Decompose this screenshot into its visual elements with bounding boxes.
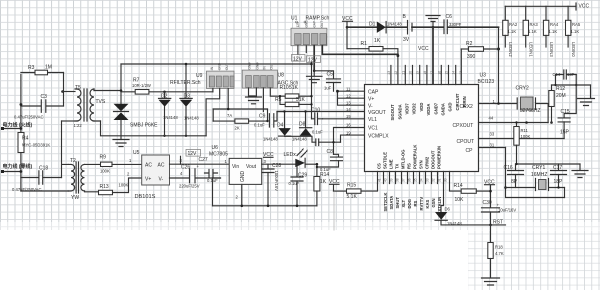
svg-text:VGOUT: VGOUT — [368, 110, 386, 116]
svg-text:32: 32 — [432, 178, 436, 182]
svg-text:D6: D6 — [445, 207, 451, 212]
svg-text:38: 38 — [396, 178, 400, 182]
capacitor C5 1uF — [314, 71, 340, 91]
svg-text:GND7: GND7 — [433, 102, 438, 114]
svg-text:14: 14 — [452, 71, 456, 75]
node junction dots left rail — [20, 103, 23, 106]
svg-text:22: 22 — [394, 71, 398, 75]
wire U5 out 12V — [170, 163, 230, 165]
wire diode bottoms bus — [285, 136, 316, 142]
svg-text:RA3: RA3 — [530, 22, 539, 27]
resistor R14 1K vertical — [314, 163, 329, 206]
svg-text:U1: U1 — [291, 16, 298, 22]
sheet symbol U9 RFILTER — [170, 62, 234, 88]
svg-text:100uF/16V: 100uF/16V — [274, 171, 279, 192]
svg-text:GND: GND — [240, 171, 246, 183]
IC top pin stubs — [391, 66, 456, 85]
svg-text:21: 21 — [401, 71, 405, 75]
svg-text:RS: RS — [413, 200, 418, 206]
svg-text:2K: 2K — [235, 125, 240, 130]
node VCC top left — [342, 16, 353, 49]
battery B 3V — [403, 14, 434, 43]
svg-text:1.1K: 1.1K — [571, 29, 580, 34]
svg-text:1N4148: 1N4148 — [292, 137, 307, 142]
svg-text:37: 37 — [402, 178, 406, 182]
svg-text:OUT: OUT — [320, 21, 324, 28]
svg-text:Vout: Vout — [246, 164, 257, 170]
svg-text:RAMP.Sch: RAMP.Sch — [306, 16, 330, 22]
node VCC right — [484, 180, 495, 208]
svg-text:MC7805: MC7805 — [209, 151, 228, 157]
svg-text:D1: D1 — [369, 22, 376, 28]
svg-text:SDATA: SDATA — [389, 196, 394, 210]
svg-text:0.1uF: 0.1uF — [254, 123, 265, 128]
svg-text:POWERALK: POWERALK — [413, 145, 418, 169]
svg-text:U3: U3 — [480, 73, 487, 79]
IC top inside labels — [390, 93, 467, 120]
wire U1 pin3 to ground — [313, 46, 315, 71]
svg-text:GXD: GXD — [448, 102, 453, 111]
svg-text:MTLD-OG: MTLD-OG — [401, 149, 406, 169]
svg-text:31: 31 — [490, 143, 495, 148]
node VCC at U6 out — [263, 152, 274, 158]
svg-text:R5: R5 — [275, 97, 282, 103]
svg-text:C28: C28 — [272, 163, 281, 169]
svg-text:CPXOUT: CPXOUT — [453, 123, 474, 129]
diode D3 — [180, 63, 199, 136]
svg-text:31: 31 — [438, 178, 442, 182]
grid background — [0, 0, 600, 230]
svg-text:C10: C10 — [311, 108, 320, 114]
svg-text:RVTTV: RVTTV — [419, 197, 424, 211]
svg-text:XLT: XLT — [401, 199, 406, 207]
svg-text:GSN: GSN — [431, 198, 436, 207]
diode D8 — [292, 110, 312, 141]
svg-text:CAP: CAP — [368, 90, 379, 96]
ground right of R12 — [578, 85, 595, 106]
svg-text:YW: YW — [71, 195, 79, 201]
wire 12V vertical — [311, 62, 313, 118]
svg-text:18P: 18P — [554, 179, 564, 185]
svg-text:RA2: RA2 — [509, 22, 518, 27]
svg-text:12: 12 — [346, 94, 351, 99]
svg-text:U9: U9 — [196, 73, 203, 79]
TVS bidirectional diode — [96, 99, 159, 140]
IC right pin wires — [479, 104, 565, 148]
svg-text:20M: 20M — [556, 93, 566, 99]
svg-text:T2: T2 — [70, 158, 76, 164]
svg-text:V-: V- — [159, 177, 164, 183]
svg-text:19: 19 — [346, 130, 351, 135]
svg-text:U6: U6 — [212, 145, 219, 151]
svg-text:390: 390 — [467, 54, 476, 60]
svg-text:1N4148: 1N4148 — [263, 136, 278, 141]
svg-text:RA5: RA5 — [572, 22, 581, 27]
wire mid rail right of C9 — [277, 111, 365, 113]
svg-text:33: 33 — [426, 178, 430, 182]
svg-text:SGNDA: SGNDA — [397, 104, 402, 119]
svg-text:C8: C8 — [327, 149, 334, 155]
crystal CRY2 32768HZ — [496, 86, 549, 123]
IC top pin numbers — [387, 71, 463, 75]
resistor R14 10K — [450, 172, 491, 204]
svg-text:CS: CS — [377, 163, 382, 169]
resistor R7 — [121, 78, 165, 95]
svg-text:R12: R12 — [556, 86, 565, 92]
wire U9 pin1 — [212, 89, 214, 92]
svg-text:100K: 100K — [100, 169, 110, 174]
wire crease artifact — [333, 192, 335, 231]
svg-text:C15: C15 — [561, 109, 570, 115]
wire crystal top rail — [552, 84, 591, 86]
svg-text:D4: D4 — [277, 122, 284, 128]
svg-text:TX: TX — [395, 163, 400, 169]
wire crystal gnd rail — [516, 163, 581, 165]
svg-text:DOGOUT: DOGOUT — [431, 150, 436, 169]
svg-text:SGTDLE: SGTDLE — [383, 152, 388, 169]
wire U8 pin4 to resistors — [270, 88, 285, 96]
svg-text:17: 17 — [430, 71, 434, 75]
wire right vertical to crystal net — [498, 27, 500, 103]
svg-text:VL1: VL1 — [368, 117, 377, 123]
capacitor C26 electrolytic — [170, 164, 221, 189]
svg-text:13: 13 — [346, 101, 351, 106]
ground under U1 — [307, 70, 323, 83]
svg-text:R14: R14 — [320, 172, 329, 178]
svg-text:RFILTER.Sch: RFILTER.Sch — [170, 80, 201, 86]
svg-text:BCI123: BCI123 — [478, 79, 495, 85]
svg-text:LEDIN0: LEDIN0 — [571, 42, 576, 57]
node neutral stub — [2, 171, 21, 173]
svg-text:100K: 100K — [521, 134, 531, 139]
svg-text:R11: R11 — [521, 128, 529, 133]
resistor R3 1M — [21, 65, 64, 75]
svg-text:11: 11 — [346, 87, 351, 92]
svg-text:1N4148: 1N4148 — [184, 116, 199, 121]
capacitor C18 — [12, 166, 62, 193]
svg-text:GNDA: GNDA — [441, 103, 446, 115]
svg-text:D8: D8 — [299, 121, 306, 127]
svg-text:16: 16 — [437, 71, 441, 75]
svg-text:23: 23 — [387, 71, 391, 75]
svg-text:30: 30 — [444, 178, 448, 182]
svg-text:CRW2: CRW2 — [425, 156, 430, 169]
capacitor C16 8P — [504, 164, 524, 188]
svg-text:3V: 3V — [403, 37, 410, 43]
capacitor C30 10uF/16V — [482, 200, 517, 225]
svg-text:U8: U8 — [278, 73, 285, 79]
svg-text:15P: 15P — [560, 130, 570, 136]
wire T5 primary top lead — [63, 91, 76, 93]
wire to ground bus — [213, 178, 221, 206]
resistor RA5 1.1K — [566, 6, 581, 57]
wire pin16 — [334, 128, 365, 155]
svg-text:5.1K: 5.1K — [347, 194, 358, 200]
svg-text:LEDIN3: LEDIN3 — [549, 42, 554, 57]
diode D6 1N4148 — [435, 184, 462, 227]
IC left pin numbers — [346, 87, 351, 136]
svg-text:100K: 100K — [119, 183, 129, 188]
svg-text:8P: 8P — [511, 179, 518, 185]
svg-text:1M: 1M — [45, 65, 52, 71]
svg-text:CAP: CAP — [313, 21, 317, 28]
svg-text:13: 13 — [459, 71, 463, 75]
svg-text:1N4148: 1N4148 — [387, 22, 402, 27]
svg-text:CPOUT: CPOUT — [457, 139, 475, 145]
svg-text:SYN: SYN — [419, 160, 424, 169]
svg-text:1N4148: 1N4148 — [163, 115, 178, 120]
capacitor C6 330PF — [444, 14, 499, 34]
svg-text:12V: 12V — [296, 21, 300, 28]
IC bottom outside net labels bold — [383, 192, 442, 211]
svg-text:1.1K: 1.1K — [549, 29, 558, 34]
svg-text:12V: 12V — [308, 58, 318, 64]
node 12V label — [181, 150, 201, 165]
svg-text:DOG: DOG — [407, 199, 412, 209]
wire top rail mid — [121, 63, 312, 65]
svg-text:RS: RS — [407, 163, 412, 169]
svg-text:34: 34 — [420, 178, 424, 182]
wire rectifier rail — [165, 91, 213, 93]
resistor R10 51K — [280, 85, 312, 98]
svg-text:V-: V- — [368, 104, 373, 110]
svg-text:AC: AC — [145, 163, 152, 169]
IC right inside labels — [453, 104, 475, 154]
IC left inside labels — [368, 90, 389, 140]
svg-text:SHUT: SHUT — [395, 197, 400, 209]
svg-text:TVS: TVS — [96, 99, 106, 105]
sheet symbol U1 RAMP — [291, 16, 330, 46]
svg-text:0.1uF: 0.1uF — [289, 181, 300, 186]
svg-text:CRY1: CRY1 — [532, 165, 545, 171]
wire pin31 route — [506, 148, 565, 198]
node VCC top right — [576, 3, 589, 10]
svg-text:R10: R10 — [280, 85, 289, 91]
svg-text:12V: 12V — [188, 151, 198, 157]
node 12V label boxed mid — [307, 56, 321, 64]
svg-text:AC: AC — [158, 163, 165, 169]
svg-text:VC1: VC1 — [368, 126, 378, 132]
svg-text:C9: C9 — [259, 114, 266, 120]
resistor R18 4.7K — [488, 225, 504, 278]
IC right pin numbers — [489, 99, 496, 148]
svg-text:1K: 1K — [374, 38, 381, 44]
svg-text:GND: GND — [248, 62, 252, 70]
wire T5 primary drop — [62, 121, 69, 178]
svg-text:1:22: 1:22 — [74, 123, 83, 128]
svg-text:V+: V+ — [368, 97, 374, 103]
wire VCC rail — [505, 5, 576, 7]
svg-text:15: 15 — [445, 71, 449, 75]
svg-text:RST: RST — [493, 220, 503, 226]
svg-text:LEDx: LEDx — [284, 152, 297, 158]
svg-text:33: 33 — [490, 131, 495, 136]
wire left rail — [20, 75, 22, 192]
svg-text:7A: 7A — [227, 113, 232, 118]
svg-text:POWERKIN: POWERKIN — [437, 146, 442, 169]
wire right leg — [564, 188, 566, 198]
svg-text:OUT: OUT — [270, 63, 274, 70]
svg-text:OUT: OUT — [225, 63, 229, 70]
capacitor C29 — [289, 164, 308, 207]
wire IC pin2 top — [397, 56, 399, 85]
regulator U6 MC7805 — [209, 145, 267, 207]
svg-text:KAS: KAS — [425, 199, 430, 208]
svg-text:GND: GND — [218, 62, 222, 70]
node VCC left label — [329, 179, 340, 191]
wire U8 ground pins — [249, 88, 257, 96]
svg-text:R14: R14 — [454, 183, 463, 189]
diode D2 — [159, 92, 179, 136]
svg-text:电力线 (零线): 电力线 (零线) — [3, 163, 33, 170]
svg-text:0.1uF: 0.1uF — [320, 167, 331, 172]
svg-text:40: 40 — [384, 178, 388, 182]
wire VCC drop to IC pin — [432, 27, 434, 84]
capacitor C28 electrolytic — [262, 163, 281, 207]
svg-text:VDD2: VDD2 — [412, 103, 417, 115]
svg-text:R3: R3 — [28, 65, 35, 71]
resistor R5 51K — [275, 95, 312, 107]
transformer T5 — [74, 85, 101, 128]
svg-text:电力线 (火线): 电力线 (火线) — [3, 122, 33, 129]
svg-text:Vin: Vin — [232, 164, 239, 170]
wire lower mid rail A — [213, 108, 267, 110]
resistor RA4 1.1K — [543, 6, 558, 57]
svg-text:MYC-05D391K: MYC-05D391K — [22, 143, 50, 148]
resistor R11 100K — [514, 121, 531, 164]
svg-text:SIGOUT: SIGOUT — [390, 104, 395, 120]
wire U6 out — [262, 163, 296, 165]
wire mesh corner — [212, 109, 214, 121]
svg-text:V+: V+ — [145, 177, 151, 183]
svg-text:R2: R2 — [466, 41, 473, 47]
resistor R9 100K — [100, 155, 142, 174]
svg-text:39: 39 — [390, 178, 394, 182]
svg-text:RA4: RA4 — [550, 22, 559, 27]
wire bottom left — [21, 190, 68, 192]
svg-text:CRY2: CRY2 — [516, 86, 529, 92]
wire U1 pin4 to IC — [322, 46, 398, 55]
capacitor C10 — [311, 108, 323, 125]
ground bottom right — [482, 278, 500, 285]
wire T5 secondary bottom drop — [101, 121, 207, 136]
wire VCC to D1 — [347, 26, 377, 28]
svg-text:C30: C30 — [483, 200, 492, 206]
sheet symbol U8 AGC — [242, 62, 298, 88]
resistor RA3 1.1K — [523, 6, 538, 57]
svg-text:19: 19 — [416, 71, 420, 75]
node live-line stub — [2, 128, 21, 130]
wire U8 pin3 to C9 — [262, 88, 264, 111]
ground below TVS — [113, 140, 129, 147]
svg-text:R15: R15 — [347, 183, 356, 189]
svg-text:32768HZ: 32768HZ — [520, 108, 541, 114]
svg-text:R1: R1 — [361, 41, 368, 47]
svg-text:R9: R9 — [100, 155, 107, 161]
diode D1 1N4148 — [369, 22, 407, 33]
svg-text:1uF: 1uF — [324, 86, 332, 91]
svg-text:51K: 51K — [289, 85, 299, 91]
svg-text:VCC: VCC — [579, 3, 590, 9]
svg-text:36: 36 — [408, 178, 412, 182]
wire RST net — [441, 220, 506, 225]
wire ground bus — [213, 205, 317, 207]
IC left pin wires — [338, 91, 365, 105]
svg-text:35: 35 — [414, 178, 418, 182]
svg-text:220uF/25V: 220uF/25V — [179, 184, 200, 189]
IC bottom pin stubs — [378, 172, 444, 184]
wire TVS leg — [120, 64, 122, 104]
svg-text:C6: C6 — [446, 14, 453, 20]
wire U1 pin2 stub — [305, 46, 307, 53]
node 12V label under U1 — [292, 46, 306, 63]
resistor R2 390 — [461, 41, 498, 85]
svg-text:10R-1/2W: 10R-1/2W — [132, 83, 151, 88]
resistor R13 100K — [99, 178, 142, 195]
resistor RA2 1.1K — [503, 6, 518, 57]
svg-text:15: 15 — [346, 114, 351, 119]
svg-text:GND: GND — [256, 62, 260, 70]
wire T5 secondary top to TVS rail — [94, 90, 121, 92]
capacitor C17 18P — [551, 164, 567, 189]
svg-text:1.1K: 1.1K — [508, 29, 517, 34]
svg-text:VCMPLX: VCMPLX — [368, 134, 389, 140]
varistor R4 — [18, 133, 50, 153]
svg-text:R4: R4 — [22, 136, 29, 142]
svg-text:18: 18 — [423, 71, 427, 75]
ground crystal rail — [572, 164, 588, 178]
svg-text:1K: 1K — [320, 179, 327, 185]
wire snubber right leg — [63, 73, 65, 107]
svg-text:SET2CLK: SET2CLK — [383, 192, 388, 211]
wire U9 pin2 — [206, 89, 220, 136]
svg-text:C3: C3 — [41, 94, 48, 100]
svg-text:C5: C5 — [327, 72, 334, 78]
svg-text:20: 20 — [409, 71, 413, 75]
svg-text:0.1uF: 0.1uF — [312, 130, 323, 135]
svg-text:16MHZ: 16MHZ — [531, 172, 547, 178]
svg-text:10uF/16V: 10uF/16V — [498, 208, 516, 213]
svg-text:GND: GND — [305, 20, 309, 28]
wire IC pin15 lead — [323, 118, 365, 120]
capacitor C3 — [14, 94, 64, 120]
ground inverted above battery wire — [426, 16, 440, 29]
svg-text:16: 16 — [346, 123, 351, 128]
svg-text:CP: CP — [466, 148, 474, 154]
ground under U8 — [246, 97, 262, 104]
svg-text:44: 44 — [489, 116, 494, 121]
svg-text:DB101S: DB101S — [135, 194, 156, 200]
svg-text:R18: R18 — [495, 245, 503, 250]
svg-text:12V: 12V — [293, 56, 303, 62]
svg-text:1.1K: 1.1K — [528, 29, 537, 34]
svg-text:VCC: VCC — [418, 46, 429, 52]
capacitor C15 15P — [558, 85, 576, 139]
svg-text:CRX2: CRX2 — [460, 104, 474, 110]
svg-text:10K: 10K — [455, 197, 465, 203]
capacitor C9 0.1uF — [254, 112, 285, 128]
svg-text:4.7K: 4.7K — [495, 251, 504, 256]
svg-text:VDD: VDD — [419, 103, 424, 112]
resistor R1 1K — [347, 38, 399, 57]
svg-text:R13: R13 — [100, 184, 109, 190]
svg-text:C18: C18 — [39, 166, 48, 172]
wire U9 pin3 — [227, 89, 229, 110]
svg-text:14: 14 — [346, 107, 351, 112]
svg-text:VDDA: VDDA — [426, 104, 431, 116]
IC bottom inside labels — [377, 145, 442, 169]
svg-text:330PF: 330PF — [449, 22, 462, 27]
